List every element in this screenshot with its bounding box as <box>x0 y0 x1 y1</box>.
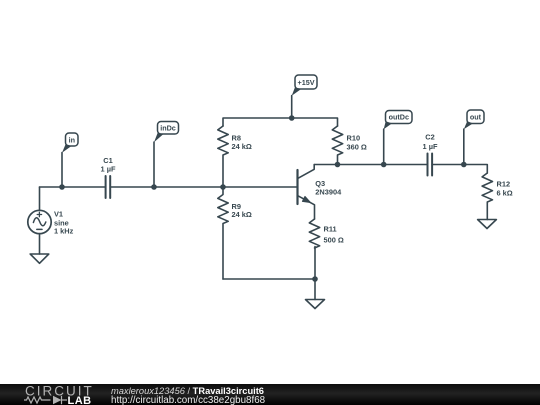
svg-text:1 µF: 1 µF <box>101 165 116 174</box>
svg-text:in: in <box>69 135 75 144</box>
svg-text:1 kHz: 1 kHz <box>54 227 74 236</box>
svg-text:http://circuitlab.com/cc38e2gb: http://circuitlab.com/cc38e2gbu8f68 <box>111 395 266 405</box>
svg-text:6 kΩ: 6 kΩ <box>497 189 513 198</box>
svg-text:C2: C2 <box>425 133 434 142</box>
svg-text:24 kΩ: 24 kΩ <box>232 142 252 151</box>
svg-text:2N3904: 2N3904 <box>315 187 342 196</box>
svg-text:+15V: +15V <box>298 78 315 87</box>
svg-text:inDc: inDc <box>160 124 176 133</box>
svg-text:R10: R10 <box>347 134 361 143</box>
svg-text:500 Ω: 500 Ω <box>324 235 344 244</box>
svg-text:V1: V1 <box>54 210 63 219</box>
svg-text:LAB: LAB <box>68 395 92 405</box>
svg-text:24 kΩ: 24 kΩ <box>232 210 252 219</box>
svg-text:out: out <box>470 112 482 121</box>
svg-text:outDc: outDc <box>389 113 409 122</box>
svg-text:R12: R12 <box>497 180 511 189</box>
svg-text:1 µF: 1 µF <box>423 142 438 151</box>
svg-text:360 Ω: 360 Ω <box>347 143 367 152</box>
svg-text:R11: R11 <box>324 225 337 234</box>
